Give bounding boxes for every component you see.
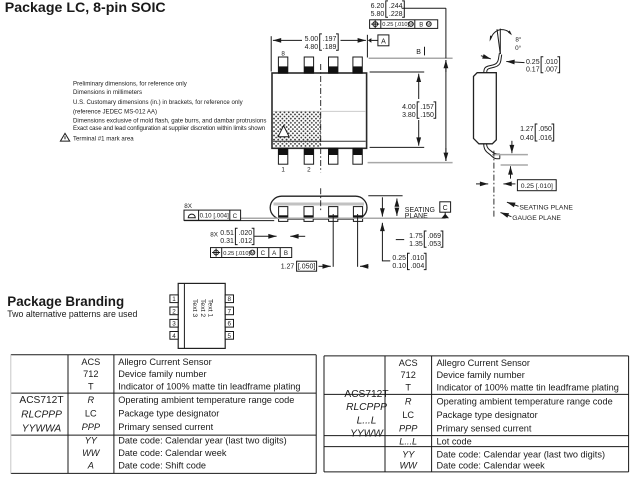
svg-text:5.80: 5.80 xyxy=(371,11,385,18)
svg-text:0.10 [.004]: 0.10 [.004] xyxy=(200,213,230,220)
svg-text:Package Branding: Package Branding xyxy=(7,294,124,309)
svg-text:RLCPPP: RLCPPP xyxy=(346,402,387,413)
svg-text:WW: WW xyxy=(400,460,419,470)
svg-text:7: 7 xyxy=(228,308,232,315)
svg-text:Package type designator: Package type designator xyxy=(437,410,538,420)
svg-text:YY: YY xyxy=(402,449,415,459)
svg-text:LC: LC xyxy=(85,409,97,419)
svg-text:Device family number: Device family number xyxy=(118,369,206,379)
svg-text:C: C xyxy=(261,250,266,257)
svg-text:Date code: Calendar year (last: Date code: Calendar year (last two digit… xyxy=(437,449,606,459)
svg-text:B: B xyxy=(419,22,423,28)
svg-text:B: B xyxy=(416,49,421,56)
svg-text:Indicator of 100% matte tin le: Indicator of 100% matte tin leadframe pl… xyxy=(118,382,300,392)
svg-text:1.75: 1.75 xyxy=(409,233,423,240)
svg-text:.157: .157 xyxy=(420,104,434,111)
svg-text:8°: 8° xyxy=(515,36,522,44)
svg-text:6.20: 6.20 xyxy=(371,3,385,10)
svg-text:Date code: Calendar week: Date code: Calendar week xyxy=(437,460,546,470)
svg-text:3: 3 xyxy=(172,321,176,328)
svg-text:ACS712T: ACS712T xyxy=(19,395,63,406)
svg-text:.189: .189 xyxy=(323,44,337,51)
svg-text:(reference JEDEC MS-012 AA): (reference JEDEC MS-012 AA) xyxy=(73,108,157,115)
svg-text:5: 5 xyxy=(228,333,232,340)
svg-text:4: 4 xyxy=(172,333,176,340)
svg-text:712: 712 xyxy=(83,369,98,379)
svg-text:.016: .016 xyxy=(538,135,552,142)
svg-text:[.050]: [.050] xyxy=(298,264,316,271)
svg-text:YYWW: YYWW xyxy=(350,428,384,439)
svg-text:8X: 8X xyxy=(210,232,219,239)
svg-text:0.25: 0.25 xyxy=(526,59,540,66)
svg-text:RLCPPP: RLCPPP xyxy=(21,410,62,421)
svg-text:Indicator of 100% matte tin le: Indicator of 100% matte tin leadframe pl… xyxy=(437,383,619,393)
svg-text:8X: 8X xyxy=(184,203,193,210)
svg-text:0.51: 0.51 xyxy=(220,230,234,237)
svg-text:ACS712T: ACS712T xyxy=(344,389,388,400)
svg-text:Operating ambient temperature: Operating ambient temperature range code xyxy=(118,395,294,405)
svg-text:0.40: 0.40 xyxy=(520,135,534,142)
svg-text:3.80: 3.80 xyxy=(402,112,416,119)
svg-text:PPP: PPP xyxy=(82,422,101,432)
svg-text:.197: .197 xyxy=(323,36,337,43)
svg-text:Preliminary dimensions, for re: Preliminary dimensions, for reference on… xyxy=(73,80,188,87)
svg-text:0.10: 0.10 xyxy=(392,263,406,270)
svg-text:YYWWA: YYWWA xyxy=(22,424,62,435)
svg-text:A: A xyxy=(87,461,94,471)
svg-text:M: M xyxy=(251,250,255,255)
svg-text:0.25: 0.25 xyxy=(392,255,406,262)
svg-text:L...L: L...L xyxy=(357,415,377,426)
svg-text:SEATING PLANE: SEATING PLANE xyxy=(519,204,573,211)
svg-text:1: 1 xyxy=(172,296,176,303)
svg-text:0.31: 0.31 xyxy=(220,238,234,245)
svg-text:M: M xyxy=(427,22,431,27)
svg-text:0.25 [.010]: 0.25 [.010] xyxy=(382,22,409,28)
svg-text:Text 1: Text 1 xyxy=(206,299,213,317)
svg-text:T: T xyxy=(405,383,411,393)
svg-text:U.S. Customary dimensions (in.: U.S. Customary dimensions (in.) in brack… xyxy=(73,99,244,106)
svg-text:2: 2 xyxy=(307,166,311,173)
svg-text:PPP: PPP xyxy=(399,423,418,433)
svg-text:Package type designator: Package type designator xyxy=(118,409,219,419)
svg-text:PLANE: PLANE xyxy=(405,213,428,220)
svg-text:.010: .010 xyxy=(411,255,425,262)
svg-text:Terminal #1 mark area: Terminal #1 mark area xyxy=(73,136,134,143)
svg-text:Date code: Shift code: Date code: Shift code xyxy=(118,461,206,471)
svg-text:.004: .004 xyxy=(411,263,425,270)
svg-text:L...L: L...L xyxy=(399,436,417,446)
svg-text:Primary sensed current: Primary sensed current xyxy=(437,423,532,433)
svg-text:Text 2: Text 2 xyxy=(199,299,206,317)
svg-text:.020: .020 xyxy=(239,230,253,237)
svg-text:1.27: 1.27 xyxy=(520,126,534,133)
svg-text:A: A xyxy=(381,38,386,45)
svg-text:WW: WW xyxy=(82,448,101,458)
svg-text:M: M xyxy=(409,22,413,27)
svg-text:Date code: Calendar week: Date code: Calendar week xyxy=(118,448,227,458)
svg-text:.050: .050 xyxy=(538,126,552,133)
svg-text:C: C xyxy=(233,213,238,220)
svg-text:4.00: 4.00 xyxy=(402,104,416,111)
svg-text:5.00: 5.00 xyxy=(305,36,319,43)
svg-text:Allegro Current Sensor: Allegro Current Sensor xyxy=(118,357,211,367)
svg-text:4.80: 4.80 xyxy=(305,44,319,51)
svg-text:B: B xyxy=(284,250,288,257)
svg-text:Package LC, 8-pin SOIC: Package LC, 8-pin SOIC xyxy=(5,0,166,16)
svg-text:YY: YY xyxy=(85,436,98,446)
svg-text:0.25 [.010]: 0.25 [.010] xyxy=(223,251,250,257)
svg-text:1.35: 1.35 xyxy=(409,241,423,248)
svg-text:8: 8 xyxy=(281,50,285,57)
svg-text:Dimensions exclusive of mold f: Dimensions exclusive of mold flash, gate… xyxy=(73,118,266,125)
svg-text:8: 8 xyxy=(228,296,232,303)
svg-text:Exact case and lead configurat: Exact case and lead configuration at sup… xyxy=(73,125,265,132)
svg-text:C: C xyxy=(443,205,448,212)
svg-text:0°: 0° xyxy=(515,44,522,52)
svg-text:.150: .150 xyxy=(420,112,434,119)
svg-text:6: 6 xyxy=(228,321,232,328)
svg-text:LC: LC xyxy=(402,410,414,420)
svg-text:Device family number: Device family number xyxy=(437,370,525,380)
svg-text:Primary sensed current: Primary sensed current xyxy=(118,422,213,432)
svg-text:Allegro Current Sensor: Allegro Current Sensor xyxy=(437,358,530,368)
svg-text:R: R xyxy=(87,395,94,405)
svg-text:1: 1 xyxy=(281,166,285,173)
svg-text:GAUGE PLANE: GAUGE PLANE xyxy=(512,215,561,222)
svg-text:Dimensions in millimeters: Dimensions in millimeters xyxy=(73,89,142,96)
svg-text:Lot code: Lot code xyxy=(437,436,472,446)
svg-text:ACS: ACS xyxy=(399,358,418,368)
svg-text:Date code: Calendar year (last: Date code: Calendar year (last two digit… xyxy=(118,436,287,446)
svg-text:Operating ambient temperature: Operating ambient temperature range code xyxy=(437,396,613,406)
svg-text:1.27: 1.27 xyxy=(281,264,295,271)
svg-text:Two alternative patterns are u: Two alternative patterns are used xyxy=(7,309,137,319)
svg-text:.010: .010 xyxy=(544,59,558,66)
svg-text:712: 712 xyxy=(401,370,416,380)
svg-text:ACS: ACS xyxy=(81,357,100,367)
svg-text:.012: .012 xyxy=(239,238,253,245)
svg-text:0.25 [.010]: 0.25 [.010] xyxy=(521,183,553,190)
svg-text:.069: .069 xyxy=(427,233,441,240)
svg-text:.228: .228 xyxy=(389,11,403,18)
svg-text:.244: .244 xyxy=(389,3,403,10)
svg-text:.007: .007 xyxy=(544,66,558,73)
svg-text:.053: .053 xyxy=(427,241,441,248)
svg-text:T: T xyxy=(88,382,94,392)
svg-text:2: 2 xyxy=(172,308,176,315)
svg-text:0.17: 0.17 xyxy=(526,66,540,73)
svg-text:R: R xyxy=(405,396,412,406)
svg-text:Text 3: Text 3 xyxy=(191,299,198,317)
